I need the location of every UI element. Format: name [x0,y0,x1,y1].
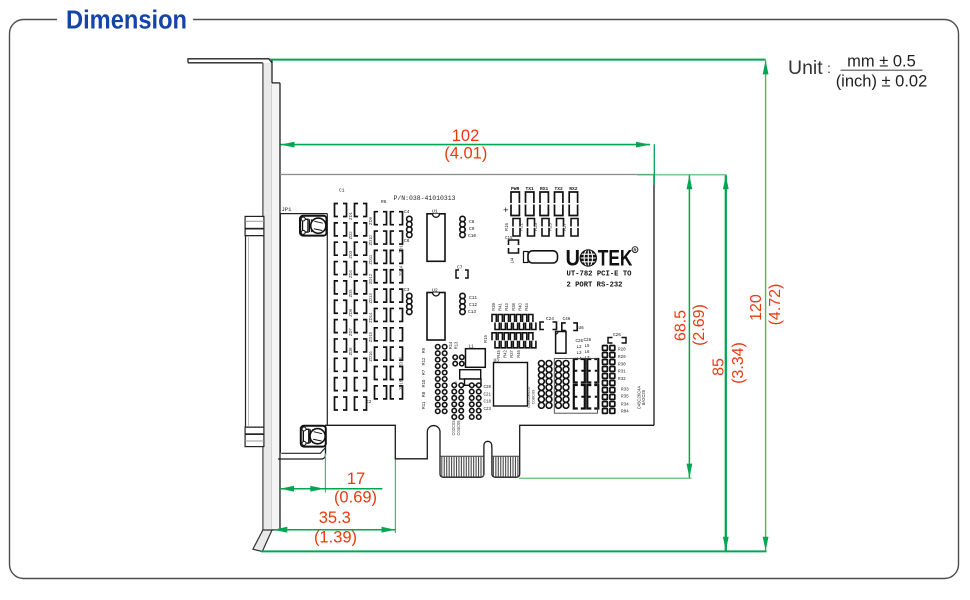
resistor network pads A [603,346,615,414]
dimension 17 line [280,486,382,492]
svg-text:Unit: Unit [788,57,823,79]
capacitor C19 [574,359,585,409]
pad group G2 [470,383,492,419]
svg-text:(2.69): (2.69) [691,304,708,346]
capacitor C46 [562,317,584,331]
svg-text:85: 85 [711,358,728,376]
dimension 68.5 line [687,175,693,477]
unit label [788,57,831,79]
svg-text:C20: C20 [484,386,492,390]
svg-text:ZD13: ZD13 [368,293,373,304]
svg-text:C12: C12 [469,302,477,308]
extension line fingers bottom [519,477,692,479]
svg-text:R13: R13 [454,341,459,349]
capacitor column 3 [375,199,387,399]
resistors R16-R27 [504,219,578,237]
svg-text:C28: C28 [584,339,592,343]
IC U3 [494,358,536,409]
svg-text:68.5: 68.5 [673,310,690,341]
capacitor C7 [456,265,468,279]
svg-text:C18: C18 [484,401,492,405]
svg-text:ZD14: ZD14 [399,265,404,276]
svg-text:C26: C26 [613,333,621,338]
svg-text:L2: L2 [577,346,583,350]
PCB right edge [653,175,655,426]
extension line card step [394,460,396,534]
screw lock top [300,216,327,236]
svg-text:TX2: TX2 [555,186,564,192]
IC U5 [556,332,566,354]
svg-text:ZD3: ZD3 [348,250,353,259]
svg-text:R: R [633,248,636,253]
svg-text:+: + [503,205,509,216]
connector housing JP1 [280,214,327,454]
svg-text:C6: C6 [404,238,410,244]
svg-text:R11: R11 [421,401,426,409]
extension line notch [324,454,326,493]
svg-text:P/N:038-41010313: P/N:038-41010313 [394,195,456,202]
IC U2 [427,287,445,340]
pad group D [556,361,569,409]
svg-text:ZD10: ZD10 [368,235,373,246]
svg-text:L3: L3 [577,352,583,356]
plus mark [503,205,509,216]
svg-text:RX2: RX2 [569,186,578,192]
dimension 120 line [763,60,769,551]
extension line card right [653,144,655,185]
svg-text:R41: R41 [498,303,503,311]
capacitors C4 C6 [404,209,412,244]
top extension line bracket [270,59,766,61]
svg-text:ZD5: ZD5 [348,289,353,298]
capacitors C8 C9 C10 [460,216,477,239]
svg-text::: : [827,60,831,76]
svg-text:RX1: RX1 [540,186,549,192]
svg-text:C04C05: C04C05 [456,420,461,436]
svg-text:C08C09: C08C09 [531,389,536,404]
svg-text:ZD16: ZD16 [368,351,373,362]
svg-text:R39: R39 [491,303,496,311]
dimension 102 text [444,127,487,163]
pads 2x2 [453,355,464,366]
screw lock bottom [301,426,326,447]
svg-text:ZD8: ZD8 [348,347,353,356]
svg-text:ZD11: ZD11 [368,254,373,265]
svg-text:2 PORT RS-232: 2 PORT RS-232 [567,282,623,290]
svg-text:R04: R04 [621,410,629,415]
bracket offset strip [272,83,280,530]
svg-text:(4.72): (4.72) [767,284,784,326]
capacitors near U2 left [404,287,412,315]
svg-text:C21: C21 [484,393,492,397]
label JP1 [282,206,293,213]
svg-text:ZD4: ZD4 [348,269,353,278]
bottom extension line [261,550,767,552]
capacitor C26 [608,333,626,343]
svg-text:C26: C26 [576,340,584,344]
svg-text:R42: R42 [503,350,508,358]
labels R14 R13 [448,341,459,349]
svg-text:R21: R21 [518,222,523,230]
ferrite bead [453,370,481,387]
svg-text:ZD16: ZD16 [399,379,404,390]
svg-text:C11: C11 [469,295,477,301]
svg-text:(3.34): (3.34) [730,342,747,384]
labels R20-R34 [618,348,629,415]
svg-text:U: U [566,245,581,270]
svg-text:L6: L6 [585,351,591,355]
svg-text:TEK: TEK [598,245,633,270]
capacitor C20 [587,359,598,409]
DB25 connector shell [245,216,264,446]
svg-text:TX1: TX1 [526,186,535,192]
svg-text:R32: R32 [618,377,626,382]
dimension 120 text [748,284,784,326]
svg-text:U2: U2 [432,287,438,293]
svg-text:ZD14: ZD14 [368,312,373,323]
svg-text:R33: R33 [621,388,629,393]
labels left of H1 [421,347,426,409]
capacitor column ZD1-ZD8 left [335,188,347,411]
capacitor C15 [505,237,519,253]
svg-text:U6: U6 [579,326,585,331]
inductor labels [576,339,592,362]
capacitors C11 C12 C13 [460,293,478,315]
svg-text:R23: R23 [533,222,538,230]
capacitor column 4 [391,212,403,399]
gold fingers block 2 [492,456,520,476]
svg-text:R37: R37 [509,350,514,358]
dimension 17 text [334,470,377,507]
svg-text:17: 17 [347,470,365,488]
svg-text:R27: R27 [562,222,567,230]
silkscreen part number [394,195,456,202]
capacitor C24 [540,317,557,330]
svg-text:R38: R38 [511,303,516,311]
PCB top edge [280,174,654,176]
dimension 85 text [711,342,748,384]
bracket top tab [188,59,272,63]
svg-text:C9: C9 [469,226,475,232]
svg-text:C13: C13 [468,309,476,315]
svg-text:PWR: PWR [511,186,520,192]
bracket foot [253,530,272,552]
svg-text:JP1: JP1 [282,206,293,213]
unit fraction mm [836,53,928,91]
pad group C [539,361,552,409]
crystal U4 [510,251,558,264]
svg-text:C23: C23 [484,408,492,412]
svg-text:mm ± 0.5: mm ± 0.5 [847,53,916,71]
svg-text:102: 102 [452,127,480,145]
svg-text:R14: R14 [448,341,453,349]
svg-text:C7: C7 [457,265,463,271]
svg-text:R44: R44 [524,303,529,311]
svg-text:R25: R25 [547,222,552,230]
svg-text:R31: R31 [618,370,626,375]
svg-text:C46: C46 [563,317,571,322]
svg-text:C4: C4 [404,209,410,215]
svg-text:ZD6: ZD6 [348,308,353,317]
svg-text:U1: U1 [432,209,438,215]
svg-text:120: 120 [748,294,765,321]
svg-text:8A2C25: 8A2C25 [641,389,646,405]
svg-text:(0.69): (0.69) [334,489,377,507]
svg-text:R12: R12 [421,357,426,365]
svg-text:UT-782 PCI-E TO: UT-782 PCI-E TO [567,271,633,279]
svg-text:R9: R9 [421,347,426,353]
header pads H1 [436,345,447,414]
svg-text:C10: C10 [468,233,476,239]
svg-text:ZD15: ZD15 [368,331,373,342]
svg-text:C24: C24 [546,317,554,322]
svg-text:C8: C8 [469,219,475,225]
extension line top right [637,174,727,176]
gold fingers block 1 [440,456,484,476]
capacitor column 2 [355,204,372,411]
svg-text:U3: U3 [494,358,500,364]
svg-text:R46: R46 [516,350,521,358]
svg-text:ZD15: ZD15 [399,356,404,367]
dimension 85 line [723,175,729,551]
svg-text:Dimension: Dimension [66,7,187,35]
module outline [554,359,597,414]
svg-text:ZD9: ZD9 [368,216,373,225]
svg-text:ZD13: ZD13 [399,242,404,253]
svg-text:(inch) ± 0.02: (inch) ± 0.02 [836,73,928,91]
svg-text:L5: L5 [585,345,591,349]
svg-text:R40: R40 [517,303,522,311]
svg-text:R30: R30 [618,362,626,367]
svg-text:R43: R43 [504,303,509,311]
silkscreen model text [567,271,633,290]
svg-text:R35: R35 [621,395,629,400]
svg-text:35.3: 35.3 [319,509,351,527]
svg-text:ZD7: ZD7 [348,327,353,336]
svg-text:R10: R10 [421,379,426,387]
svg-text:R29: R29 [618,355,626,360]
svg-text:(1.39): (1.39) [314,529,357,547]
svg-text:C1: C1 [339,188,345,194]
zener diode labels [348,211,404,390]
vertical label strip [637,386,647,410]
dimension 68.5 text [673,304,709,346]
svg-text:R34: R34 [621,403,629,408]
svg-text:R20: R20 [618,348,626,353]
svg-text:U4: U4 [510,257,515,263]
dimension 35.3 text [314,509,357,547]
svg-text:R15: R15 [483,334,488,342]
bracket main strip [263,61,272,534]
resistor pack row 2 [483,333,536,358]
svg-text:C15: C15 [505,237,513,241]
svg-text:R7: R7 [421,369,426,375]
pad group G1 [451,383,464,436]
resistor pack row 1 [491,303,536,330]
svg-text:R16: R16 [504,222,509,230]
svg-text:C3: C3 [404,287,410,293]
svg-text:ZD2: ZD2 [348,231,353,240]
svg-text:(4.01): (4.01) [444,145,487,163]
svg-text:R6: R6 [381,199,387,205]
svg-text:ZD12: ZD12 [368,273,373,284]
dimension 102 line [281,142,651,148]
IC U1 [427,209,445,262]
svg-text:ZD1: ZD1 [348,211,353,220]
dimension 35.3 line [273,527,395,533]
inductor L1 [466,345,486,368]
svg-text:R45: R45 [496,350,501,358]
svg-text:L1: L1 [469,345,475,350]
title Dimension [66,7,187,35]
LED indicators PWR TX1 RX1 TX2 RX2 [511,186,578,216]
svg-text:R8: R8 [421,391,426,397]
PCB bottom edge with PCI-E connector profile [278,425,654,477]
UOTEK logo [566,245,638,270]
svg-text:C2: C2 [366,399,372,405]
